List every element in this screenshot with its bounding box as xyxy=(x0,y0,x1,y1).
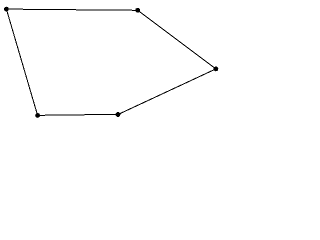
wire C-D (lower-right edge) xyxy=(118,69,216,115)
node D (bottom-right vertex) xyxy=(116,112,121,117)
node E (bottom-left vertex) xyxy=(35,113,40,118)
wire E-A (left edge) xyxy=(6,9,37,115)
wire A-B (top edge) xyxy=(6,9,137,10)
wire B-C (upper-right edge) xyxy=(138,10,216,69)
wire D-E (bottom edge) xyxy=(38,113,118,116)
node B (top-right vertex) xyxy=(135,8,140,13)
node A (top-left vertex) xyxy=(4,7,9,12)
node C (right vertex) xyxy=(214,67,219,72)
